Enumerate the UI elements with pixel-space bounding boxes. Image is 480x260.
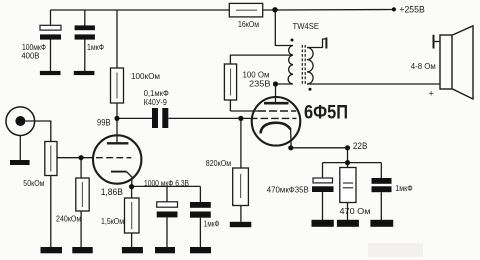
input jack [6,107,35,136]
wire 470uF top lead [322,163,324,178]
watermark remnant [368,243,423,257]
wire 1.5k through to ground [131,186,133,247]
ground C2 [74,71,95,75]
wire pentode plate lead [275,84,277,103]
wire 240k through to ground [80,158,82,248]
wire C2 bottom lead [84,40,86,72]
primary phase dot [291,39,294,42]
wire 50k to grid node [57,157,94,159]
svg-text:1000 мкФ 6,3В: 1000 мкФ 6,3В [144,179,189,188]
ground 820k [230,222,252,227]
wire 1uF top lead [199,186,201,202]
svg-text:1,86В: 1,86В [101,187,123,197]
svg-text:+255В: +255В [399,5,424,15]
wire C2 top lead [84,10,86,26]
capacitor 1uF output [372,178,413,193]
svg-text:240кОм: 240кОм [56,214,81,223]
svg-text:1мкФ: 1мкФ [204,220,220,229]
wire rail to +255V [275,9,393,12]
ground 240k [72,247,92,253]
capacitor C1 100uF 400V [21,25,61,60]
svg-text:1мкФ: 1мкФ [395,184,412,193]
node +255V [392,7,396,11]
wire cathode rail tube1 [132,185,201,187]
wire 1uF right top lead [380,163,382,178]
svg-text:470мкФ35В: 470мкФ35В [267,185,309,194]
tube V1 triode [93,135,141,183]
wire g2 lead [230,110,258,112]
wire pentode cathode lead [290,129,293,148]
node rail junction [345,160,350,165]
svg-text:235В: 235В [249,79,271,88]
svg-text:6Ф5П: 6Ф5П [304,101,348,123]
svg-text:16кОм: 16кОм [238,19,259,29]
wire 470uF bottom lead [322,192,324,220]
capacitor 1uF cathode [190,202,219,229]
node cathode tube2 [288,145,293,150]
node g1 junction [238,116,243,121]
transformer core [302,45,305,85]
svg-text:0,1мкФ: 0,1мкФ [144,89,169,98]
wire triode cathode bend [127,172,133,187]
svg-text:22В: 22В [353,141,368,151]
resistor 16kOm [229,3,262,29]
triode cathode [111,171,127,173]
resistor 100kOm plate load [111,68,161,103]
svg-text:400В: 400В [21,51,39,60]
capacitor C2 1uF [75,25,104,52]
resistor 240kOm [56,178,89,223]
output terminal bar [325,38,327,49]
resistor 820kOm [206,159,249,206]
transformer secondary winding [307,48,313,85]
wire coupling cap to g1 node [168,117,250,119]
wire 1uF right bottom lead [380,192,382,220]
wire 1uF bottom lead [199,218,201,248]
wire secondary bottom to speaker [307,83,440,85]
wire 50k through to ground [50,142,52,248]
wire 470 Ohm top lead [347,163,349,168]
triode grid [96,157,131,159]
wire top rail [51,9,276,11]
node 99V [114,116,119,121]
wire cathode to 22V node [291,147,348,149]
wire B+ vertical to primary top [275,10,293,46]
ground 50k [41,247,63,253]
wire jack ground lead [19,136,21,161]
pentode cathode [261,123,291,134]
wire cathode network rail [323,162,382,164]
svg-text:50кОм: 50кОм [23,179,44,188]
node cathode junction [129,184,134,189]
triode plate [107,142,128,144]
ground jack [10,160,30,165]
svg-text:4-8 Ом: 4-8 Ом [411,62,436,71]
wire 1000uF top lead [166,186,168,201]
svg-text:1,5кОм: 1,5кОм [101,217,124,226]
svg-text:TW4SE: TW4SE [293,21,320,31]
wire input jack to 50k [25,121,51,142]
ground 1uF [190,247,211,253]
svg-text:820кОм: 820кОм [206,159,232,168]
ground 1.5k [122,247,143,253]
wire primary bottom to 235V node [276,83,294,85]
wire C1 top lead [50,10,52,26]
ground 470 Om [337,220,359,227]
wire secondary top to output terminal [307,39,326,48]
wire 22V down to rail [347,148,349,163]
svg-text:+: + [429,88,434,98]
pentode plate [264,102,289,105]
wire 1000uF bottom lead [166,217,168,247]
wire speaker terminal stub [434,41,441,43]
svg-text:100 Ом: 100 Ом [243,70,270,79]
speaker terminal bar [433,35,435,49]
svg-text:К40У-9: К40У-9 [144,98,167,107]
svg-text:99В: 99В [97,117,111,127]
wire 99V node to coupling cap [117,117,152,119]
pentode g1 grid [250,117,297,119]
node 22V [345,145,350,150]
speaker [411,26,473,99]
capacitor 470uF 35V [267,178,334,194]
wire UL tap to 100 Ohm [230,55,293,111]
ground 470uF [312,220,334,227]
transformer primary winding [288,46,293,85]
svg-text:100кОм: 100кОм [131,72,160,81]
secondary phase dot [309,88,312,91]
node after 16k [272,7,277,12]
tube V2 pentode 6F5P [250,97,300,146]
pentode g2 grid [258,110,296,112]
wire 820k through to ground [240,118,242,221]
capacitor 1000uF 6.3V [144,179,189,217]
wire 470 Ohm bottom lead [347,203,349,221]
capacitor coupling 0.1uF K40U-9 [144,89,169,128]
ground 1uF output [370,220,393,227]
svg-text:470 Ом: 470 Ом [340,207,371,216]
ground C1 [40,71,61,75]
resistor 100 Om screen [224,64,269,100]
resistor 1.5kOm [101,198,139,233]
ground 1000uF [155,247,175,253]
resistor 50kOm [23,142,57,189]
resistor 470 Om [340,168,371,216]
node grid junction [79,155,84,160]
svg-text:1мкФ: 1мкФ [87,43,104,52]
node 235V [273,81,278,86]
wire C1 bottom lead [50,40,52,72]
wire 100k lead through to triode plate [116,10,118,143]
